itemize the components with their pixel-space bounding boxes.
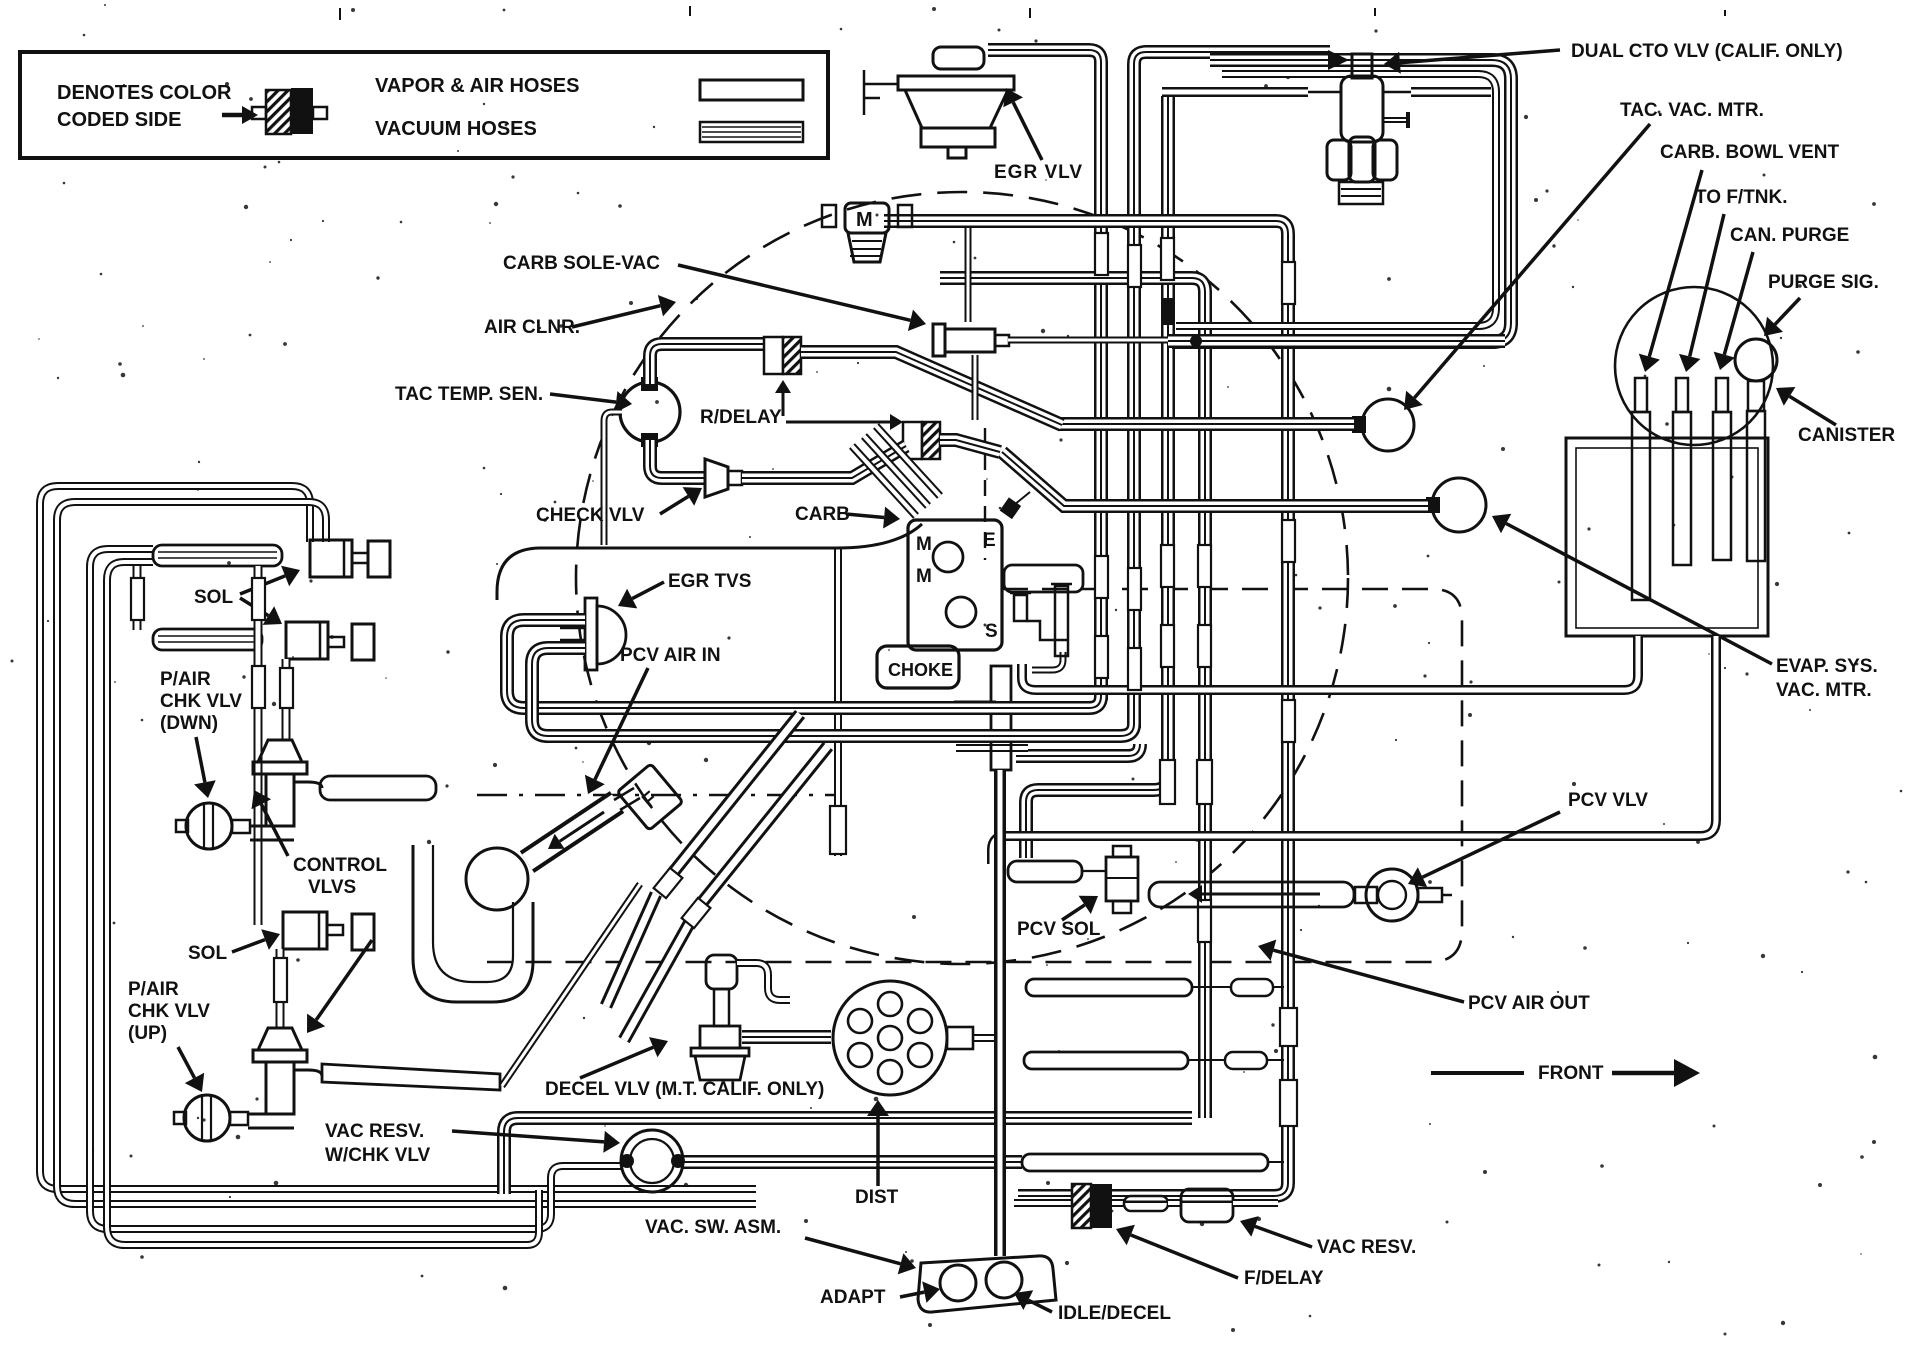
- air clnr leader: [572, 306, 660, 327]
- dist leader: [876, 1116, 880, 1186]
- wire H5 bundle: [1168, 334, 1505, 348]
- svg-text:E: E: [983, 530, 996, 551]
- TAC temp sensor: [620, 382, 680, 442]
- svg-text:TO F/TNK.: TO F/TNK.: [1695, 187, 1788, 208]
- small link tube: [1355, 887, 1377, 903]
- wire coupler2 out: [940, 440, 1000, 452]
- tac vac mtr leader: [1414, 124, 1650, 398]
- svg-text:CHK VLV: CHK VLV: [128, 1001, 210, 1022]
- solenoid 2: [286, 622, 328, 659]
- carb body: [908, 520, 1002, 650]
- sol leader down: [240, 598, 268, 616]
- svg-text:CONTROL: CONTROL: [293, 855, 387, 876]
- TAC vac motor: [1362, 399, 1414, 451]
- check vlv leader: [660, 496, 688, 514]
- wire EGR TVS hose 1 / long run H8: [507, 620, 1101, 708]
- M fitting valve: [845, 203, 889, 233]
- svg-text:(UP): (UP): [128, 1023, 167, 1044]
- EVAP vac motor: [1432, 478, 1486, 532]
- front arrow head: [1612, 1071, 1674, 1076]
- ribbed tube S2: [153, 629, 262, 650]
- legend vapor hose symbol: [700, 80, 803, 100]
- control valve 2: [258, 1028, 302, 1050]
- wire trunk V5 from M fitting: [884, 221, 1288, 1196]
- ball check DWN: [186, 803, 232, 849]
- svg-text:P/AIR: P/AIR: [160, 669, 211, 690]
- svg-text:CHK VLV: CHK VLV: [160, 691, 242, 712]
- wire left border inner hose a: [90, 549, 623, 1229]
- can purge leader: [1724, 252, 1753, 355]
- svg-text:SOL: SOL: [188, 943, 227, 964]
- PCV air out tube: [1149, 882, 1354, 907]
- air cleaner dashed circle: [576, 192, 1348, 964]
- distributor: [833, 981, 947, 1095]
- connector breaks on V5: [1280, 1008, 1297, 1046]
- f/delay leader: [1131, 1235, 1238, 1278]
- connector breaks on V3/V4: [1160, 760, 1175, 804]
- svg-text:VAC. MTR.: VAC. MTR.: [1776, 680, 1872, 701]
- wire stub row y748: [956, 744, 1028, 752]
- wire sensor top hose: [650, 344, 764, 384]
- svg-text:EGR TVS: EGR TVS: [668, 571, 751, 592]
- wire dist to vac sw link: [973, 1034, 998, 1042]
- svg-text:FRONT: FRONT: [1538, 1063, 1604, 1084]
- svg-text:DENOTES COLOR: DENOTES COLOR: [57, 82, 232, 104]
- svg-text:CHECK VLV: CHECK VLV: [536, 505, 645, 526]
- diagonal tube chain A: [672, 714, 800, 874]
- svg-text:F/DELAY: F/DELAY: [1244, 1268, 1324, 1289]
- purge sig port: [1735, 339, 1777, 381]
- carb lower tube: [991, 666, 1011, 770]
- idle/decel leader: [1028, 1300, 1052, 1312]
- pcv air in leader: [595, 668, 648, 780]
- svg-text:W/CHK VLV: W/CHK VLV: [325, 1145, 431, 1166]
- dash-dot line mid left: [477, 794, 836, 797]
- svg-text:VLVS: VLVS: [308, 877, 356, 898]
- svg-text:SOL: SOL: [194, 587, 233, 608]
- tube valve2 out: [322, 1064, 500, 1090]
- wire CTO right hose tube: [1411, 87, 1491, 97]
- EGR TVS: [585, 598, 597, 670]
- legend arrow: [222, 113, 242, 118]
- wire loop V6 inner: [1176, 74, 1496, 326]
- svg-text:PCV SOL: PCV SOL: [1017, 919, 1101, 940]
- canister tube: [1676, 378, 1688, 412]
- carb leader: [846, 514, 884, 518]
- to f/tnk leader: [1690, 214, 1724, 356]
- carb diagonal tube: [852, 446, 916, 516]
- pcv air out leader: [1273, 950, 1464, 1002]
- diagonal tube chain B: [700, 746, 828, 905]
- wire sole-vac hose: [1008, 337, 1168, 344]
- svg-text:DECEL VLV (M.T. CALIF. ONLY): DECEL VLV (M.T. CALIF. ONLY): [545, 1079, 824, 1100]
- svg-text:P/AIR: P/AIR: [128, 979, 179, 1000]
- wire sensor bottom hose: [650, 440, 705, 478]
- canister tube: [1635, 378, 1647, 412]
- svg-text:TAC TEMP. SEN.: TAC TEMP. SEN.: [395, 384, 543, 405]
- wire hose to EVAP vac motor: [1002, 452, 1428, 506]
- carb diagonal tube: [864, 436, 928, 506]
- junction dot: [1190, 335, 1202, 347]
- svg-text:AIR CLNR.: AIR CLNR.: [484, 317, 580, 338]
- purge sig tube: [1748, 381, 1764, 411]
- dashed vertical at carb: [984, 428, 986, 560]
- wire trunk V3 with bottom corner: [1026, 96, 1168, 858]
- filter F box: [617, 764, 683, 831]
- p/air up leader: [178, 1047, 195, 1078]
- r/delay arrow up: [782, 393, 785, 416]
- wire CTO left hose tube: [1162, 87, 1308, 97]
- vertical pair x258: [254, 566, 263, 925]
- svg-text:PCV VLV: PCV VLV: [1568, 790, 1648, 811]
- tac temp sen leader: [550, 394, 616, 402]
- choke box: [877, 646, 959, 688]
- EGR valve dome: [933, 47, 984, 69]
- legend color-coded coupler symbol: [266, 90, 291, 134]
- ball check UP: [184, 1095, 230, 1141]
- decel valve: [706, 955, 737, 989]
- choke pull-off: [1004, 565, 1083, 592]
- svg-text:CARB SOLE-VAC: CARB SOLE-VAC: [503, 253, 660, 274]
- carb bowl vent leader: [1649, 170, 1702, 357]
- svg-text:VAC RESV.: VAC RESV.: [1317, 1237, 1416, 1258]
- carb sole-vac leader: [678, 265, 910, 320]
- svg-text:M: M: [916, 566, 932, 587]
- wire r/delay diagonal to TAC hose: [801, 352, 1062, 425]
- dual CTO leader: [1400, 50, 1560, 63]
- svg-text:CODED SIDE: CODED SIDE: [57, 109, 181, 131]
- svg-text:CARB. BOWL VENT: CARB. BOWL VENT: [1660, 142, 1839, 163]
- wire carb drop hose: [834, 548, 842, 856]
- svg-text:CARB: CARB: [795, 504, 850, 525]
- connector tube left: [133, 566, 142, 630]
- p/air dwn leader: [196, 737, 205, 782]
- canister dome circle: [1615, 287, 1773, 445]
- wire canister to engine hose: [1022, 636, 1638, 690]
- wire decel to dist bundle: [742, 1030, 831, 1044]
- wire trunk V2 with top corner to CTO: [1134, 52, 1330, 728]
- vac resv leader: [1255, 1226, 1312, 1247]
- wire left border outer hose b: [57, 502, 756, 1204]
- tube left of pcv sol: [1008, 861, 1082, 882]
- sol2 leader: [232, 940, 265, 952]
- ribbed tube S1: [153, 545, 282, 566]
- R/delay coupler 1: [764, 337, 783, 374]
- svg-text:EGR VLV: EGR VLV: [994, 162, 1083, 183]
- solenoid 1: [310, 540, 352, 577]
- control vlvs leader 1: [261, 804, 288, 856]
- svg-text:TAC. VAC. MTR.: TAC. VAC. MTR.: [1620, 100, 1764, 121]
- PCV valve: [1366, 869, 1418, 921]
- page tick marks: [339, 8, 341, 20]
- svg-text:IDLE/DECEL: IDLE/DECEL: [1058, 1303, 1171, 1324]
- svg-text:S: S: [985, 621, 998, 642]
- vac reservoir w/check valve donut: [621, 1130, 683, 1192]
- legend box: [20, 52, 828, 158]
- pcv sol leader: [1062, 905, 1085, 920]
- control valve 1: [258, 740, 302, 762]
- vac resv w/chk leader: [452, 1131, 604, 1142]
- wire sole-vac up: [965, 228, 972, 322]
- wire EGR TVS hose 2 / long run H9: [532, 648, 1134, 736]
- wire loop V6 top right: [1172, 60, 1511, 342]
- purge sig leader: [1775, 298, 1800, 324]
- vac sw asm leader: [805, 1238, 901, 1264]
- svg-text:M: M: [916, 534, 932, 555]
- svg-text:VAPOR & AIR HOSES: VAPOR & AIR HOSES: [375, 75, 579, 97]
- carb sole-vac valve: [933, 324, 945, 356]
- evap sys vac mtr leader: [1506, 524, 1772, 665]
- pcv vlv leader: [1423, 812, 1561, 877]
- VAC RESV component: [1181, 1189, 1233, 1222]
- wire sole-vac down: [972, 355, 979, 420]
- svg-text:CAN. PURGE: CAN. PURGE: [1730, 225, 1849, 246]
- wire sensor left hose: [604, 412, 622, 545]
- svg-text:PCV AIR IN: PCV AIR IN: [620, 645, 721, 666]
- sol3 down hose: [276, 949, 285, 1028]
- check valve: [705, 459, 728, 497]
- F/DELAY symbol: [1072, 1184, 1091, 1228]
- svg-text:(DWN): (DWN): [160, 713, 218, 734]
- engine top rounded outline: [497, 524, 922, 600]
- choke fittings: [1014, 595, 1027, 621]
- wire hose to TAC vac motor: [1058, 417, 1354, 431]
- svg-text:EVAP. SYS.: EVAP. SYS.: [1776, 656, 1878, 677]
- tube row B: [1024, 1052, 1188, 1069]
- air pump U channel: [413, 845, 533, 1002]
- decel vlv leader: [580, 1047, 653, 1078]
- sol leader up: [240, 576, 285, 594]
- control vlvs leader 2: [316, 940, 372, 1020]
- wire choke fitting link: [1032, 652, 1063, 670]
- egr tvs leader: [632, 582, 664, 599]
- EGR VLV leader: [1013, 102, 1042, 160]
- wire stub row y756: [1016, 744, 1140, 756]
- adapt leader: [900, 1292, 924, 1297]
- trunk sleeves: [1095, 233, 1108, 275]
- svg-text:CHOKE: CHOKE: [888, 660, 953, 680]
- pcv air in tube with arrow: [527, 802, 617, 862]
- tube chain joints: [654, 868, 683, 898]
- svg-text:DUAL CTO VLV (CALIF. ONLY): DUAL CTO VLV (CALIF. ONLY): [1571, 41, 1843, 62]
- wire left border inner hose b: [107, 562, 539, 1245]
- svg-text:M: M: [856, 209, 873, 231]
- solid pair down to vac sw: [994, 770, 1006, 1256]
- wire CTO side pin: [1383, 117, 1408, 123]
- canister body: [1566, 438, 1768, 636]
- wire trunk V1 with top corner to EGR: [988, 50, 1101, 700]
- CTO hex nut: [1327, 140, 1351, 180]
- svg-text:VAC RESV.: VAC RESV.: [325, 1121, 424, 1142]
- small tube: [1124, 1196, 1168, 1211]
- black connector on V3: [1161, 298, 1174, 325]
- wire canister purge to PCV: [992, 636, 1716, 864]
- arrowhead into CTO valve: [1328, 50, 1349, 70]
- hose sol2 down: [282, 659, 291, 740]
- front arrow: [1431, 1071, 1524, 1075]
- svg-text:PCV AIR OUT: PCV AIR OUT: [1468, 993, 1590, 1014]
- svg-text:PURGE SIG.: PURGE SIG.: [1768, 272, 1879, 293]
- wire reservoir to right bundle: [681, 1155, 1022, 1169]
- tube valve1 out: [320, 776, 436, 800]
- svg-text:R/DELAY: R/DELAY: [700, 407, 782, 428]
- carb top nipple: [1000, 497, 1021, 519]
- tube row A: [1026, 979, 1192, 996]
- r/delay arrow right: [786, 421, 890, 424]
- dashed engine boundary around PCV: [487, 589, 1462, 962]
- wire left border outer hose a: [40, 486, 756, 1189]
- solenoid 3: [283, 912, 327, 949]
- vac switch assembly: [918, 1256, 1056, 1312]
- dual CTO valve bottle: [1352, 54, 1372, 78]
- svg-text:ADAPT: ADAPT: [820, 1287, 886, 1308]
- svg-text:VACUUM HOSES: VACUUM HOSES: [375, 118, 537, 140]
- carb diagonal tube: [876, 426, 940, 496]
- svg-text:CANISTER: CANISTER: [1798, 425, 1895, 446]
- svg-text:DIST: DIST: [855, 1187, 899, 1208]
- wire check valve to coupler2: [742, 446, 906, 478]
- legend vacuum hose symbol: [700, 122, 803, 142]
- EGR valve left bracket: [864, 83, 898, 86]
- wire stub left of pump tube: [954, 701, 996, 708]
- f/delay hose row: [1014, 1199, 1072, 1207]
- canister leader: [1790, 396, 1836, 425]
- PCV solenoid: [1113, 846, 1131, 857]
- canister tube: [1716, 378, 1728, 412]
- ball joint: [466, 848, 528, 910]
- CTO ribs: [1339, 182, 1383, 204]
- tube row C: [1022, 1154, 1268, 1171]
- wire trunk V4 with top corner: [940, 278, 1205, 1118]
- svg-text:VAC. SW. ASM.: VAC. SW. ASM.: [645, 1217, 781, 1238]
- R/delay coupler 2: [903, 422, 922, 459]
- wire lower mid bundle: [504, 1118, 1192, 1194]
